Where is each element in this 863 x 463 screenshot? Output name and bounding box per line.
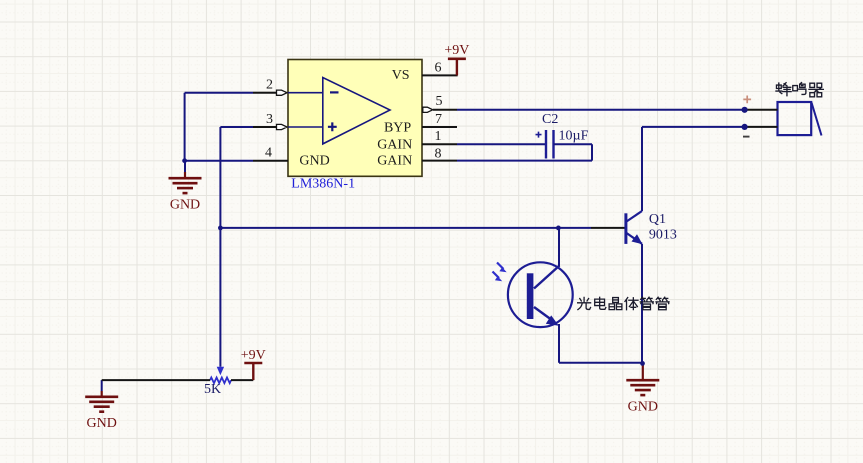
svg-text:Q1: Q1 (649, 212, 666, 227)
svg-text:+9V: +9V (241, 348, 266, 363)
svg-text:GND: GND (628, 400, 658, 415)
svg-text:3: 3 (266, 112, 273, 127)
svg-text:GND: GND (170, 198, 200, 213)
svg-text:10µF: 10µF (559, 128, 589, 143)
svg-text:GND: GND (87, 416, 117, 431)
svg-text:5K: 5K (204, 382, 221, 397)
svg-text:8: 8 (435, 146, 442, 161)
svg-text:C2: C2 (542, 112, 558, 127)
svg-text:GND: GND (299, 153, 329, 168)
svg-text:LM386N-1: LM386N-1 (291, 177, 355, 192)
svg-text:7: 7 (435, 112, 442, 127)
svg-text:9013: 9013 (649, 228, 677, 243)
svg-text:2: 2 (266, 77, 273, 92)
svg-text:+9V: +9V (444, 43, 469, 58)
svg-text:GAIN: GAIN (377, 138, 412, 153)
svg-text:VS: VS (392, 68, 410, 83)
svg-text:BYP: BYP (384, 121, 411, 136)
svg-text:4: 4 (265, 145, 272, 160)
svg-text:1: 1 (435, 129, 442, 144)
svg-text:5: 5 (436, 94, 443, 109)
svg-text:6: 6 (435, 60, 442, 75)
svg-text:GAIN: GAIN (377, 154, 412, 169)
